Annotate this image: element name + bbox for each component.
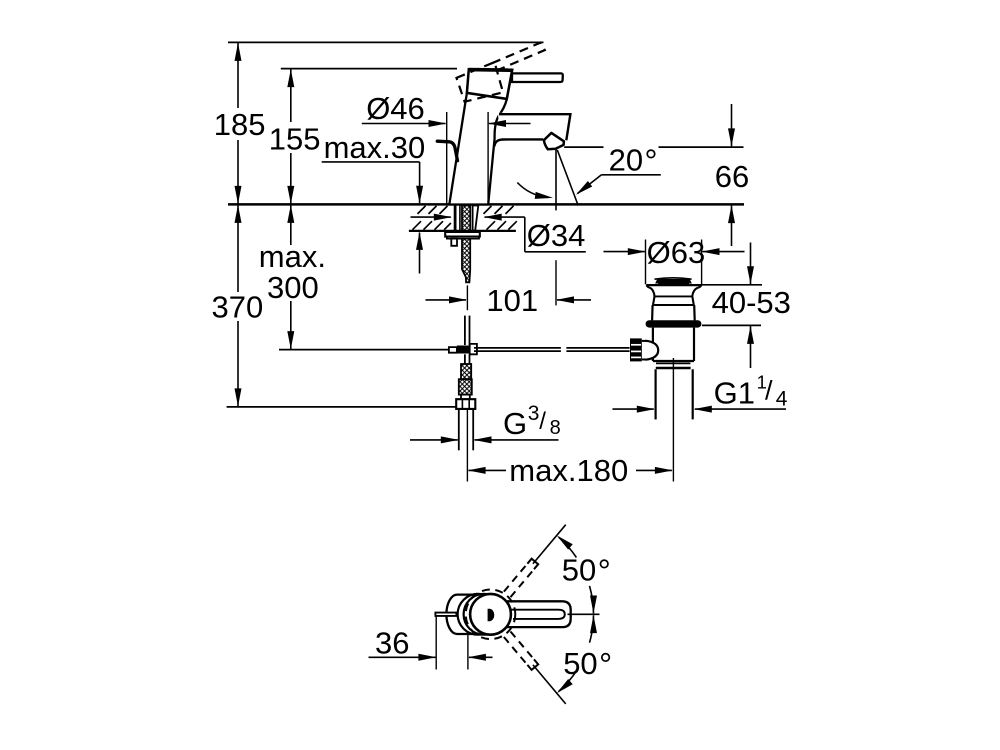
faucet handle body (cartridge housing) bbox=[467, 69, 512, 99]
top view: body ring arcs bbox=[458, 594, 499, 635]
pop-up rod below joint bbox=[464, 354, 466, 364]
countertop surface line bbox=[228, 203, 744, 206]
pop-up rod joint: left stub bbox=[449, 347, 457, 353]
svg-text:36: 36 bbox=[375, 626, 409, 661]
dashed lever outline (raised position) bbox=[492, 43, 545, 71]
top view: lever arm pointing right bbox=[505, 601, 571, 627]
svg-text:Ø46: Ø46 bbox=[366, 91, 425, 126]
top view: 50 deg arc upper bbox=[559, 537, 577, 557]
svg-text:3: 3 bbox=[528, 402, 540, 425]
faucet centerline below bbox=[466, 409, 468, 482]
G1 1/4 extension line bbox=[654, 406, 656, 420]
drain upper barrel (tapered) bbox=[653, 296, 655, 305]
faucet spout bbox=[498, 113, 572, 141]
svg-text:G1: G1 bbox=[714, 375, 755, 410]
dimension max.30 leader and arrows bbox=[322, 161, 420, 163]
20 degree leader line bbox=[602, 174, 661, 176]
svg-text:40-53: 40-53 bbox=[712, 285, 791, 320]
svg-text:G: G bbox=[503, 406, 527, 441]
svg-text:8: 8 bbox=[550, 417, 561, 439]
pop-up rod (vertical, below shank) bbox=[464, 316, 466, 345]
svg-text:°: ° bbox=[644, 143, 657, 180]
dimension G1 1/4 arrows bbox=[613, 408, 654, 410]
drain rubber seal ring (black) bbox=[646, 320, 702, 327]
svg-text:370: 370 bbox=[212, 290, 264, 325]
top view: 50 deg extension line (lower) bbox=[533, 665, 566, 704]
max.300 lower reference line (pop-up rod level) bbox=[279, 349, 449, 351]
svg-text:155: 155 bbox=[269, 122, 321, 157]
top view: dashed lever at 50 deg (upper) bbox=[504, 564, 527, 592]
svg-text:50: 50 bbox=[562, 552, 596, 587]
svg-text:101: 101 bbox=[486, 283, 538, 318]
drain body bottom edge bbox=[653, 360, 694, 362]
top view: faucet base capsule bbox=[446, 595, 478, 634]
svg-text:300: 300 bbox=[267, 270, 319, 305]
top view: 50 deg extension line (upper) bbox=[533, 525, 566, 564]
svg-text:20: 20 bbox=[609, 143, 643, 178]
handle body top edge emphasized bbox=[469, 68, 512, 72]
top view: D mark on knob bbox=[488, 609, 495, 621]
top view: dashed handle skirt circle bbox=[466, 590, 516, 640]
svg-text:66: 66 bbox=[715, 159, 749, 194]
threaded adapter below rod bbox=[461, 364, 471, 379]
drain centerline bbox=[672, 358, 674, 482]
svg-text:185: 185 bbox=[214, 107, 266, 142]
dimension 66 arrows bbox=[731, 104, 733, 146]
top view: dashed lever at 50 deg (lower) bbox=[504, 637, 527, 665]
clamp stem lines to knob bbox=[642, 340, 647, 342]
20 degree arc with arrowhead bbox=[517, 183, 548, 198]
top view: handle knob circle bbox=[470, 594, 511, 635]
dimension 155/max.300 vertical line bbox=[290, 69, 292, 122]
drain top reference line for 40-53 dim bbox=[701, 284, 763, 286]
pop-up rod hook lever on left of body bbox=[437, 141, 457, 161]
svg-text:°: ° bbox=[598, 552, 611, 589]
top view: horizontal centerline bbox=[568, 613, 600, 615]
mounting washer plate under countertop bbox=[445, 232, 480, 237]
drain tailpipe G1 1/4 bbox=[654, 369, 656, 419]
top view: rotated lever end cap (lower) bbox=[527, 659, 538, 670]
drain flange reference line for 40-53 dim bbox=[702, 324, 761, 326]
155 upper reference line bbox=[281, 68, 457, 70]
dashed handle body outline (raised position) bbox=[457, 62, 504, 102]
dimension Ø34 arrows into mounting hole bbox=[411, 216, 451, 218]
pop-up rod joint: clamp block bbox=[457, 346, 470, 354]
Ø63 extension lines bbox=[645, 240, 647, 285]
aerator nozzle at spout tip bbox=[544, 133, 564, 149]
svg-text:/: / bbox=[765, 376, 773, 406]
drain plug cap black band bbox=[655, 279, 692, 284]
dimension max.180 arrows bbox=[469, 469, 507, 471]
drain neck bbox=[650, 288, 655, 297]
top view: rotated lever end cap (upper) bbox=[527, 559, 538, 570]
svg-text:max.180: max.180 bbox=[509, 453, 628, 488]
rod clamp half-round on drain body bbox=[645, 341, 658, 360]
drain lower body bbox=[652, 328, 654, 361]
spacer wedge in mounting hole bbox=[473, 206, 479, 231]
dimension 40-53 arrows bbox=[750, 243, 752, 285]
faucet lever handle (horizontal position) bbox=[512, 73, 563, 82]
drain barrel bbox=[651, 305, 654, 320]
36 extension lines bbox=[435, 616, 437, 669]
101 extension lines bbox=[466, 285, 468, 310]
spout outlet reference line for 66 dim bbox=[564, 146, 603, 148]
dimension G3/8 arrows bbox=[410, 439, 458, 441]
dimension 185/370 vertical line bbox=[237, 42, 239, 108]
top view: pop-up rod stub bbox=[435, 613, 456, 616]
dimension 101 line and arrows bbox=[426, 299, 467, 301]
supply tube G3/8 bbox=[458, 409, 460, 450]
svg-text:max.30: max.30 bbox=[324, 130, 426, 165]
svg-text:max.: max. bbox=[259, 239, 326, 274]
countertop hatching bbox=[418, 206, 426, 214]
20 degree spout angle vertical line bbox=[555, 149, 557, 211]
drain plug cap top bbox=[655, 278, 692, 279]
faucet body column bbox=[449, 70, 512, 205]
supply connection nut bbox=[456, 399, 475, 409]
svg-text:°: ° bbox=[599, 646, 612, 683]
faucet shank threaded (crosshatched) through countertop bbox=[462, 206, 470, 283]
drain base plate bbox=[646, 284, 701, 286]
20 degree slant line bbox=[557, 150, 578, 206]
shank sleeve edge line bbox=[459, 206, 461, 231]
Ø34 leader to label bbox=[524, 217, 526, 252]
svg-text:Ø63: Ø63 bbox=[647, 235, 706, 270]
top reference line (lever raised height) bbox=[228, 41, 544, 43]
dimension Ø63 line and arrows bbox=[604, 251, 645, 253]
dimension 36 line and arrows bbox=[369, 656, 436, 658]
top view: 50 deg arc lower bbox=[559, 671, 577, 691]
svg-text:/: / bbox=[539, 408, 546, 435]
pop-up rod guide box bbox=[451, 239, 457, 246]
370 bottom reference line (supply tube level) bbox=[227, 406, 459, 408]
Ø46 extension lines bbox=[446, 112, 448, 204]
svg-text:4: 4 bbox=[776, 388, 788, 411]
svg-text:Ø34: Ø34 bbox=[527, 218, 586, 253]
countertop underside line bbox=[409, 230, 516, 232]
pop-up rod through countertop (dark bar) bbox=[454, 206, 457, 239]
knurled adjusting knob on rod bbox=[630, 338, 642, 361]
drain thread relief lines bbox=[656, 362, 690, 364]
horizontal pop-up actuating rod bbox=[474, 347, 561, 349]
svg-text:50: 50 bbox=[563, 646, 597, 681]
dimension Ø46 line and arrows bbox=[362, 123, 446, 125]
